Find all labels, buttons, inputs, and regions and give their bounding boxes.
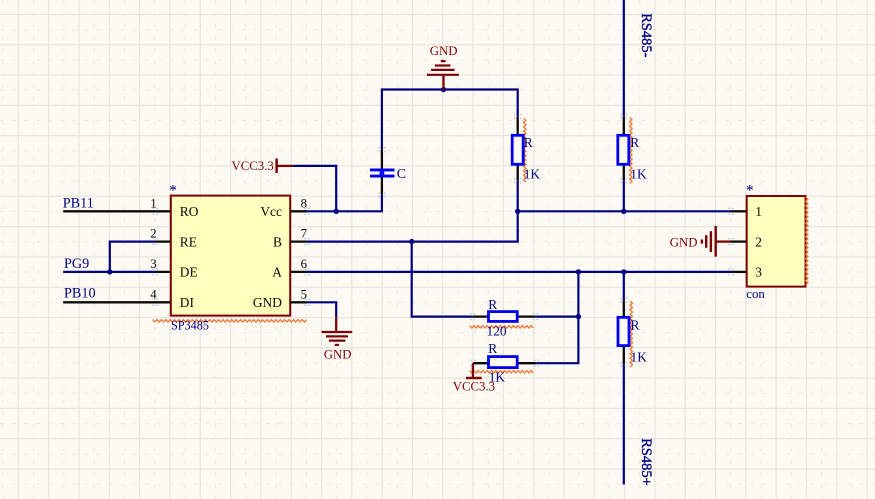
svg-text:RO: RO [180, 204, 199, 219]
svg-text:7: 7 [301, 227, 308, 241]
svg-text:8: 8 [301, 196, 307, 210]
svg-text:2: 2 [755, 234, 762, 249]
svg-text:3: 3 [150, 257, 156, 271]
svg-text:PB10: PB10 [64, 286, 96, 302]
svg-text:VCC3.3: VCC3.3 [231, 159, 273, 173]
svg-text:4: 4 [150, 287, 157, 301]
svg-text:R: R [488, 341, 497, 356]
svg-text:2: 2 [150, 227, 156, 241]
svg-text:6: 6 [301, 257, 308, 271]
svg-text:3: 3 [755, 265, 762, 280]
svg-text:*: * [169, 182, 177, 199]
svg-text:1K: 1K [630, 166, 647, 181]
svg-text:RE: RE [180, 234, 197, 249]
svg-text:con: con [746, 287, 765, 301]
svg-text:VCC3.3: VCC3.3 [453, 380, 495, 394]
svg-text:R: R [630, 135, 639, 150]
svg-text:DI: DI [180, 295, 194, 310]
svg-text:GND: GND [670, 236, 698, 250]
svg-text:PB11: PB11 [63, 196, 94, 212]
svg-text:120: 120 [487, 324, 507, 339]
svg-text:1K: 1K [631, 350, 648, 365]
svg-text:GND: GND [430, 44, 458, 58]
svg-text:Vcc: Vcc [260, 204, 282, 219]
svg-text:RS485-: RS485- [638, 13, 654, 57]
svg-text:GND: GND [324, 348, 352, 362]
svg-text:R: R [631, 318, 640, 333]
svg-text:PG9: PG9 [64, 256, 89, 272]
svg-text:C: C [397, 167, 406, 182]
svg-text:SP3485: SP3485 [171, 319, 209, 333]
svg-text:A: A [272, 265, 282, 280]
svg-text:R: R [488, 297, 497, 312]
svg-text:5: 5 [301, 287, 307, 301]
svg-text:1: 1 [150, 196, 156, 210]
svg-text:*: * [746, 182, 754, 199]
svg-text:GND: GND [253, 295, 282, 310]
svg-text:1K: 1K [524, 166, 541, 181]
svg-text:1: 1 [755, 204, 762, 219]
svg-text:B: B [273, 234, 282, 249]
svg-text:RS485+: RS485+ [638, 438, 654, 486]
svg-text:DE: DE [180, 265, 198, 280]
svg-text:R: R [524, 135, 533, 150]
